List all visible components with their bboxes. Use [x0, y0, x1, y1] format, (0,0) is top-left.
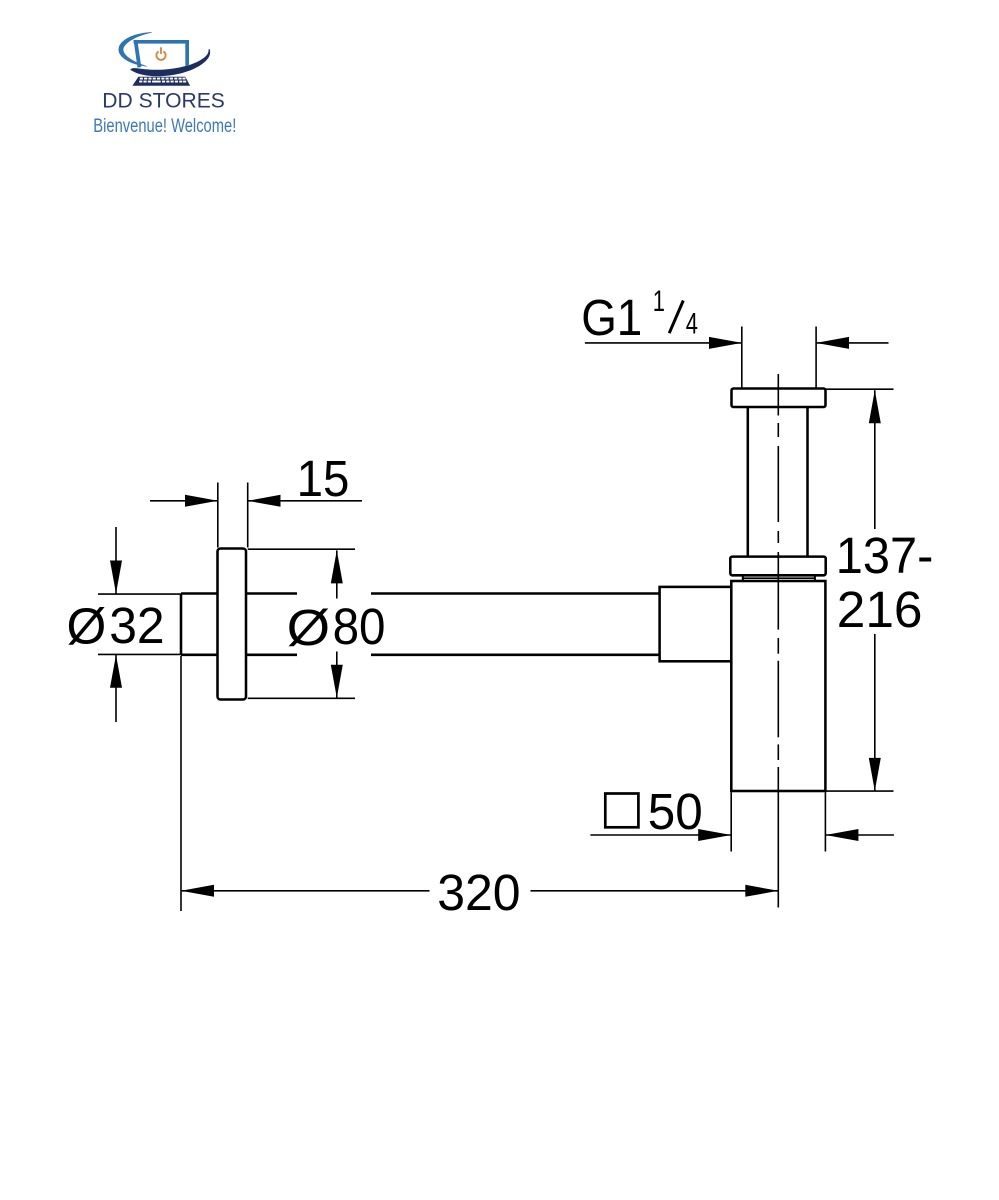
- 137-216 dimension: [826, 389, 894, 791]
- svg-text:80: 80: [333, 598, 386, 655]
- vertical outlet pipe left edge: [747, 407, 750, 557]
- gasket tick right: [814, 575, 816, 580]
- svg-text:Ø: Ø: [67, 597, 107, 654]
- fraction slash: [669, 301, 683, 334]
- arrow 137 up: [869, 390, 881, 423]
- svg-text:216: 216: [837, 581, 923, 638]
- arrow G right: [816, 337, 849, 349]
- arrow 15 right: [248, 495, 281, 507]
- svg-text:Bienvenue! Welcome!: Bienvenue! Welcome!: [93, 115, 236, 137]
- gasket tick left: [742, 575, 744, 580]
- diam80 dimension: [248, 549, 355, 698]
- monitor frame left bar: [134, 40, 142, 68]
- monitor frame top bar: [134, 40, 189, 44]
- gasket line: [743, 577, 815, 579]
- square symbol: [605, 794, 638, 828]
- arrow 320 right: [745, 885, 778, 897]
- swoosh navy crescent: [130, 49, 210, 76]
- svg-text:1: 1: [653, 285, 665, 318]
- wall flange (rosette): [218, 549, 247, 700]
- G1 1/4 dimension: [585, 327, 889, 389]
- 320 dimension: [181, 656, 778, 911]
- keyboard base: [132, 77, 190, 86]
- dim line right: [816, 342, 888, 344]
- svg-text:50: 50: [648, 783, 703, 840]
- center line segments: [777, 374, 779, 908]
- svg-text:320: 320: [437, 864, 520, 921]
- bottom flange nut: [730, 557, 825, 576]
- arrow G left: [709, 337, 742, 349]
- vertical outlet pipe right edge: [806, 407, 809, 557]
- svg-text:137-: 137-: [836, 527, 934, 584]
- keyboard keys row1: [140, 78, 186, 80]
- arrow 15 left: [185, 495, 218, 507]
- 15 dimension: [150, 483, 362, 548]
- svg-text:G1: G1: [581, 289, 642, 346]
- svg-text:4: 4: [686, 308, 698, 341]
- ext line left: [741, 327, 743, 389]
- power icon ring: [156, 51, 165, 60]
- dim line left: [585, 342, 742, 344]
- monitor frame right bar: [185, 40, 189, 66]
- arrow d32 down: [110, 561, 122, 594]
- arrow d32 up: [110, 655, 122, 688]
- pipe left end cap: [180, 594, 183, 655]
- arrow 320 left: [181, 885, 214, 897]
- keyboard keys row2: [139, 81, 186, 83]
- power icon stem: [160, 48, 162, 53]
- horizontal inlet pipe top edge: [181, 592, 297, 595]
- swoosh blue crescent: [119, 32, 152, 67]
- arrow d80 up: [331, 550, 343, 583]
- arrow d80 down: [331, 665, 343, 698]
- diam32 dimension: [98, 527, 181, 722]
- sq50 dimension: [590, 792, 894, 851]
- connector nut: [660, 587, 732, 661]
- arrow 50 right-point: [698, 829, 731, 841]
- svg-text:DD STORES: DD STORES: [102, 88, 225, 113]
- top flange nut: [732, 389, 826, 408]
- svg-text:15: 15: [297, 450, 350, 507]
- svg-text:32: 32: [109, 597, 164, 654]
- trap body: [731, 581, 825, 791]
- svg-text:Ø: Ø: [287, 599, 331, 656]
- ext line right: [815, 327, 817, 389]
- arrow 50 left-point: [825, 829, 858, 841]
- arrow 137 down: [869, 758, 881, 791]
- horizontal inlet pipe bottom edge: [181, 654, 297, 657]
